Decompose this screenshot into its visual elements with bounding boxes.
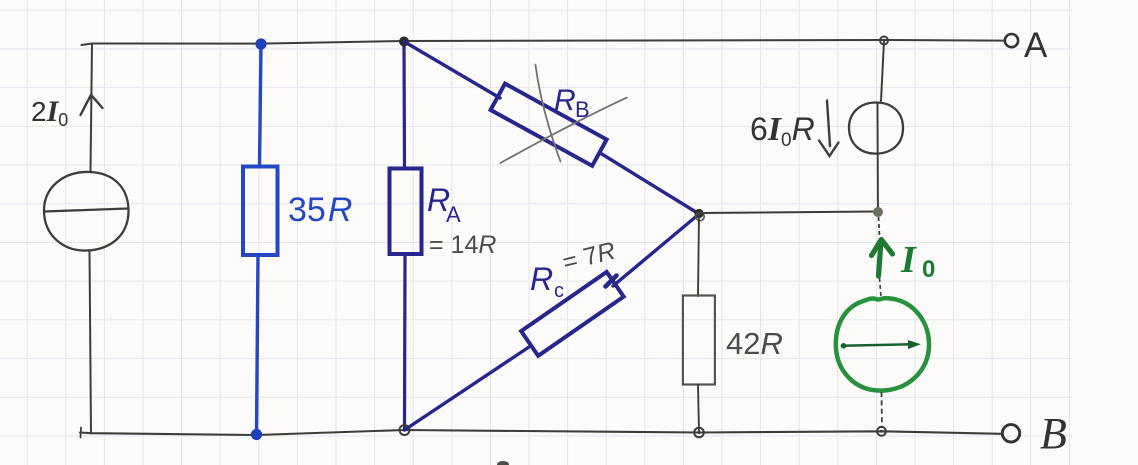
wire: blue branch lower bbox=[257, 255, 259, 434]
svg-text:= 14R: = 14R bbox=[429, 231, 496, 259]
junction dot bottom of 35R bbox=[251, 429, 262, 440]
terminal B circle bbox=[1002, 425, 1019, 442]
wire: left branch upper segment bbox=[91, 44, 93, 172]
wire: RB diagonal upper-left segment bbox=[404, 42, 500, 99]
resistor RA body bbox=[390, 169, 422, 255]
wire: 42R branch upper bbox=[698, 214, 699, 296]
resistor Rc body (rotated) bbox=[521, 272, 624, 356]
svg-text:R: R bbox=[530, 261, 553, 297]
wire: faint segment between green arrow and green source bbox=[880, 278, 882, 297]
wire: Rc diagonal lower-left segment bbox=[405, 347, 530, 430]
wire: navy branch lower bbox=[403, 255, 407, 431]
svg-text:B: B bbox=[575, 97, 590, 122]
node mid-right junction bbox=[873, 207, 883, 217]
node bottom of green source bbox=[877, 427, 886, 436]
wire: bottom rail from left corner to terminal B bbox=[80, 430, 1001, 435]
svg-text:I: I bbox=[900, 239, 917, 281]
terminal A circle bbox=[1005, 34, 1018, 47]
wire: dashed segment below mid-right node bbox=[879, 217, 880, 237]
bar through left source bbox=[44, 209, 128, 212]
node bottom of RA (open circle) bbox=[400, 425, 410, 435]
stray pencil mark bbox=[497, 461, 509, 465]
overshoot tick at Rc upper end bbox=[606, 276, 617, 287]
current source source left (circle with bar) bbox=[44, 172, 129, 251]
current source Io (green circle) bbox=[836, 298, 929, 390]
wire: top rail from left corner to terminal A bbox=[82, 40, 1005, 45]
pencil cross stroke 1 over RB bbox=[535, 65, 560, 162]
source circle 6IoR (pencil) bbox=[849, 103, 903, 154]
svg-text:0: 0 bbox=[922, 256, 935, 283]
resistor RB body (rotated) bbox=[491, 84, 607, 166]
svg-text:R: R bbox=[554, 84, 576, 117]
node top of right branch bbox=[880, 37, 888, 45]
resistor 42R body (pencil) bbox=[683, 296, 715, 385]
arrowhead up on left branch (2Io direction) bbox=[81, 95, 103, 115]
wire: through/below 6IoR source bbox=[877, 103, 880, 212]
node at top of RA bbox=[399, 37, 409, 47]
junction dot top of 35R bbox=[255, 38, 266, 49]
bar/arrow through green source bbox=[842, 344, 912, 346]
wire: 42R branch lower bbox=[698, 385, 699, 433]
pencil cross stroke 2 over RB bbox=[501, 98, 627, 163]
svg-text:A: A bbox=[446, 202, 461, 227]
wire: dashed segment below green source bbox=[881, 392, 884, 428]
node bottom of 42R bbox=[694, 428, 704, 438]
wire: blue branch upper bbox=[260, 44, 262, 167]
svg-text:A: A bbox=[1024, 26, 1048, 65]
resistor 35R body bbox=[243, 167, 278, 256]
down arrow next to 6IoR bbox=[827, 101, 830, 147]
wire: Rc diagonal upper-right segment bbox=[613, 215, 699, 287]
green arrow up (Io) bbox=[879, 241, 882, 276]
svg-text:B: B bbox=[1040, 409, 1067, 458]
wire: RB diagonal lower-right segment bbox=[601, 154, 698, 214]
wire: left branch lower segment bbox=[90, 251, 92, 434]
svg-text:35R: 35R bbox=[288, 191, 352, 229]
svg-text:42R: 42R bbox=[726, 326, 783, 361]
svg-text:c: c bbox=[554, 280, 564, 302]
wire: right branch from top rail into 6IoR source bbox=[881, 41, 884, 102]
node: middle node where diagonals meet bbox=[694, 209, 703, 218]
wire: middle horizontal to right branch bbox=[699, 212, 877, 214]
wire: navy branch upper (RA) bbox=[402, 42, 406, 169]
